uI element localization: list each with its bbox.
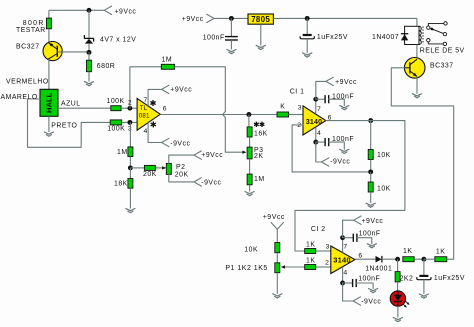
svg-text:+9Vcc: +9Vcc <box>115 9 137 16</box>
resistor R 2K2 <box>395 272 413 283</box>
wire K to CI1 pin3 <box>289 114 304 116</box>
svg-text:3: 3 <box>298 105 302 112</box>
wire cap to ground CI1 pin4 <box>329 142 345 149</box>
resistor R 1M feedback <box>161 57 174 70</box>
transistor Q1 BC327 <box>16 42 62 61</box>
wire CI1 pin4 to -9Vcc <box>316 142 322 162</box>
ground CI2 pin7 cap <box>367 244 376 248</box>
wire 1M to P3 wiper with hop <box>175 67 243 152</box>
svg-text:RELE DE 5V: RELE DE 5V <box>420 48 465 55</box>
relay contacts <box>427 22 448 46</box>
svg-text:CI 1: CI 1 <box>290 88 305 95</box>
op-amp U1 TL081 <box>137 98 160 130</box>
zener diode D 4V7 x 12V <box>84 35 136 44</box>
wire CI1 pin4 node <box>315 127 317 142</box>
wire pin4 to cap <box>316 141 325 143</box>
wire node to 18K <box>129 168 131 179</box>
wire 1uF to ground <box>306 39 308 53</box>
svg-text:2: 2 <box>297 122 301 129</box>
node dot zener/680R/base <box>87 50 92 55</box>
ground CI1 pin4 cap <box>340 149 349 153</box>
node dot 7805 input <box>229 16 234 21</box>
diode D 1N4007 <box>372 34 408 42</box>
ground below HALL <box>44 132 53 136</box>
svg-text:1K: 1K <box>436 249 445 256</box>
capacitor C 1uFx25V bottom <box>417 275 465 282</box>
wire BC327 collector to HALL (VERMELHO) <box>6 59 49 89</box>
capacitor C 100nF CI1 pin4 <box>325 136 354 146</box>
wire CI1 pin7 to +9Vcc <box>316 81 326 99</box>
ground below 10K lower <box>366 203 375 207</box>
power terminal +9Vcc CI2 <box>354 216 384 225</box>
resistor R 20K <box>143 165 157 178</box>
wire output node to 10K <box>370 121 372 150</box>
svg-text:3: 3 <box>326 243 330 250</box>
wire 10K lower to ground <box>370 192 372 203</box>
wire rail to 1uF <box>306 18 308 34</box>
svg-text:+9Vcc: +9Vcc <box>263 214 285 221</box>
power terminal +9Vcc top-left <box>104 6 136 16</box>
pin 2 label CI2 <box>325 260 329 267</box>
pin 7 label <box>144 97 148 104</box>
wire 680R to ground <box>88 72 90 82</box>
capacitor C 100nF CI2 pin4 <box>353 275 381 287</box>
ground below P1 <box>273 294 282 298</box>
svg-text:680R: 680R <box>97 63 115 70</box>
wire P1 to ground <box>276 273 278 294</box>
wire rail to zener D 4V7 <box>88 10 90 38</box>
svg-text:BC337: BC337 <box>430 62 454 69</box>
svg-text:-9Vcc: -9Vcc <box>361 298 381 305</box>
node dot rail/zener top-left <box>87 8 92 13</box>
wire 16K to P3 <box>249 137 251 147</box>
power terminal +9Vcc 7805 <box>182 14 214 23</box>
label CI 2 <box>311 226 326 233</box>
asterisk mark pin7 <box>150 100 155 106</box>
svg-text:20K: 20K <box>143 171 157 178</box>
resistor R 1K second <box>435 249 447 262</box>
wire 800R to Q BC327 emitter <box>48 29 50 43</box>
wire pin2 node up to 1M <box>130 67 161 108</box>
svg-text:1M: 1M <box>254 176 265 183</box>
resistor R 1K after diode <box>403 248 414 262</box>
resistor R 16K <box>247 127 268 137</box>
svg-text:1K: 1K <box>403 248 412 255</box>
svg-text:+9Vcc: +9Vcc <box>362 218 384 225</box>
capacitor C 1uFx25V rail <box>300 34 348 41</box>
svg-text:10K: 10K <box>244 246 258 253</box>
op-amp U3 CI2 3140 <box>331 246 355 274</box>
wire BC327 base <box>57 51 89 53</box>
wire CI2 pin4 to -9Vcc <box>343 283 354 301</box>
ground below 18K <box>126 209 135 213</box>
wire AZUL <box>58 100 111 108</box>
wire pin3 node down to 1M <box>129 122 131 146</box>
wire BC337 emitter to ground <box>416 77 418 94</box>
svg-text:2: 2 <box>128 100 132 107</box>
power terminal -9Vcc P2 <box>194 178 221 187</box>
resistor R 680R <box>87 60 116 71</box>
wire HALL PRETO to ground <box>49 116 78 132</box>
svg-text:P2: P2 <box>176 164 185 171</box>
pin 3 label CI2 <box>326 243 330 250</box>
wire CI2 output <box>355 258 376 260</box>
svg-text:7: 7 <box>144 97 148 104</box>
svg-text:1uFx25V: 1uFx25V <box>434 275 465 282</box>
svg-text:VERMELHO: VERMELHO <box>6 78 49 85</box>
wire output node down 16K <box>248 115 250 127</box>
wire cap to ground CI2 pin4 <box>356 283 373 289</box>
svg-text:6: 6 <box>163 106 167 113</box>
svg-text:2K: 2K <box>254 153 263 160</box>
svg-text:3140: 3140 <box>306 119 322 126</box>
svg-text:1N4001: 1N4001 <box>365 265 392 272</box>
pin 6 label <box>163 106 167 113</box>
wire TL081 output <box>160 114 277 116</box>
svg-text:PRETO: PRETO <box>51 122 77 129</box>
svg-text:20K: 20K <box>175 172 189 179</box>
wire 10K to P1 <box>276 253 278 263</box>
wire rail down to relay <box>416 18 418 26</box>
diode D 1N4001 <box>365 256 392 272</box>
wire AMARELO loop <box>1 94 111 147</box>
svg-text:1uFx25V: 1uFx25V <box>317 34 348 41</box>
svg-text:BC327: BC327 <box>16 44 40 51</box>
label CI 1 <box>290 88 305 95</box>
power terminal +9Vcc P2 <box>194 151 223 159</box>
wire CI1 pin7 node <box>315 99 317 113</box>
wire LED to ground <box>397 306 399 317</box>
svg-text:4: 4 <box>317 130 321 137</box>
pin 2 label <box>128 100 132 107</box>
svg-text:18K: 18K <box>114 181 128 188</box>
op-amp U2 CI1 3140 <box>303 106 326 135</box>
svg-text:+9Vcc: +9Vcc <box>182 16 204 23</box>
svg-text:3140: 3140 <box>333 255 351 264</box>
ground below rail 1uF <box>303 53 312 57</box>
wire 100K to pin3 node <box>122 121 137 123</box>
resistor R 1M chain <box>247 174 264 185</box>
node dot after 1N4001 <box>395 257 400 262</box>
wire 18K to ground <box>129 188 131 208</box>
wiper arrow into P2 <box>162 166 166 169</box>
svg-text:-9Vcc: -9Vcc <box>330 158 350 165</box>
svg-text:2K2: 2K2 <box>400 275 414 282</box>
wire 100K to pin2 node <box>121 107 137 109</box>
resistor R 1K CI2 pin2 <box>305 257 316 269</box>
svg-text:100nF: 100nF <box>359 231 381 238</box>
wire terminal to 10K <box>276 229 278 242</box>
ground below 1M chain <box>245 192 254 196</box>
pin 2 label CI1 <box>297 122 301 129</box>
ground below LED <box>393 318 402 322</box>
capacitor C 100nF input <box>203 35 238 42</box>
node dot CI1 output <box>368 118 373 123</box>
wire pin4 to cap CI2 <box>343 282 353 284</box>
svg-text:4V7 x 12V: 4V7 x 12V <box>100 36 136 43</box>
svg-text:-9Vcc: -9Vcc <box>170 140 190 147</box>
node dot pin3 <box>127 120 132 125</box>
power terminal +9Vcc CI1 <box>326 77 357 86</box>
power terminal -9Vcc CI2 <box>353 297 381 306</box>
wire CI2 pin7 node <box>342 238 344 253</box>
transistor Q2 BC337 <box>404 58 453 79</box>
svg-text:+9Vcc: +9Vcc <box>170 86 192 93</box>
wire 1M to node <box>129 157 131 168</box>
svg-text:AZUL: AZUL <box>61 100 81 107</box>
pin 3 label <box>128 126 132 133</box>
wire 1M chain to ground <box>249 185 251 192</box>
resistor R 1K CI2 pin3 <box>305 242 316 254</box>
node dot CI2 pin4 <box>340 281 345 286</box>
svg-text:P1 1K2 1K5: P1 1K2 1K5 <box>225 265 267 272</box>
pin 6 label CI2 <box>358 253 362 260</box>
svg-text:CI 2: CI 2 <box>311 226 326 233</box>
capacitor C 100nF CI1 pin7 <box>325 93 354 103</box>
wire pin7 to cap <box>316 98 325 100</box>
svg-text:1M: 1M <box>117 149 128 156</box>
wire node to 10K lower <box>370 172 372 182</box>
node dot CI2 pin7 <box>340 235 345 240</box>
svg-text:1K: 1K <box>306 257 315 264</box>
wire rail to 800R <box>48 10 50 18</box>
svg-text:10K: 10K <box>377 186 391 193</box>
svg-text:K: K <box>280 103 285 110</box>
wire CI2 pin4 node <box>342 267 344 283</box>
wire 1K to base riser <box>447 258 454 260</box>
relay K1 coil RELE DE 5V <box>405 26 465 54</box>
svg-text:100K: 100K <box>107 98 125 105</box>
svg-text:+9Vcc: +9Vcc <box>335 79 357 86</box>
svg-text:16K: 16K <box>254 130 268 137</box>
wire P3 to 1M <box>249 159 251 174</box>
node dot pin2 <box>127 106 132 111</box>
resistor R 800R <box>16 18 51 34</box>
wire P2 top to +9Vcc <box>169 155 194 163</box>
wire zener to node <box>88 44 90 53</box>
svg-text:3: 3 <box>128 126 132 133</box>
power terminal +9Vcc P1 chain <box>263 214 285 229</box>
svg-text:TESTAR: TESTAR <box>16 27 46 34</box>
node dot TL081 output <box>246 112 251 117</box>
svg-text:HALL: HALL <box>44 92 53 113</box>
pin 6 label CI1 <box>328 115 332 122</box>
wire 1uF bottom node <box>423 259 425 275</box>
pin 4 label <box>144 128 148 135</box>
svg-text:AMARELO: AMARELO <box>1 94 38 101</box>
wire 20K to P2 wiper <box>155 167 162 169</box>
node dot 10K divider <box>368 169 373 174</box>
wire BC337 base loop <box>391 68 453 259</box>
ground below 7805 <box>256 45 265 49</box>
svg-text:100nF: 100nF <box>358 275 380 282</box>
svg-text:100K: 100K <box>107 126 125 133</box>
wire 1K to CI2 pin3 <box>316 250 331 252</box>
resistor R 100K (pin2) <box>107 98 125 111</box>
pin 4 label CI1 <box>317 130 321 137</box>
wire TL081 pin4 to -9Vcc <box>148 123 162 143</box>
node dot CI1 pin7 <box>313 97 318 102</box>
power terminal -9Vcc CI1 <box>322 158 351 166</box>
power terminal +9Vcc TL081 <box>162 85 193 93</box>
wire node to 680R <box>88 52 90 60</box>
svg-text:100nF: 100nF <box>203 35 225 42</box>
wire 7805 output rail <box>273 17 417 19</box>
potentiometer P1 1K2 1K5 <box>225 263 279 273</box>
resistor R 10K lower <box>368 182 391 193</box>
node dot CI1 pin4 <box>313 140 318 145</box>
resistor R 10K P1 chain <box>244 243 279 254</box>
svg-text:1K: 1K <box>306 242 315 249</box>
wire cap to ground CI1 pin7 <box>329 99 345 105</box>
potentiometer P3 2K <box>247 147 263 160</box>
svg-text:4: 4 <box>144 128 148 135</box>
ground below input cap <box>227 50 236 54</box>
wire +9Vcc rail top-left <box>49 9 104 11</box>
svg-text:7: 7 <box>343 244 347 251</box>
wire TL081 pin7 to +9Vcc <box>148 89 162 105</box>
potentiometer P2 20K <box>166 163 188 178</box>
svg-text:10K: 10K <box>377 152 391 159</box>
asterisk mark pin4 <box>151 121 156 127</box>
resistor R K <box>277 103 289 117</box>
regulator U 7805 <box>248 14 273 24</box>
node dot 5V rail <box>305 16 310 21</box>
resistor R 100K (pin3) <box>107 120 125 133</box>
wire cap to ground <box>230 40 232 49</box>
svg-text:+9Vcc: +9Vcc <box>201 152 223 159</box>
wire pin7 to cap CI2 <box>343 237 354 239</box>
ground CI1 pin7 cap <box>340 106 349 110</box>
capacitor C 100nF CI2 pin7 <box>353 231 380 242</box>
svg-text:4: 4 <box>343 269 347 276</box>
resistor R 1M vertical <box>117 147 133 157</box>
pin 7 label CI1 <box>317 106 321 113</box>
relay dotted link <box>422 27 424 45</box>
svg-text:2: 2 <box>325 260 329 267</box>
resistor R 10K upper <box>368 150 391 160</box>
wire relay to BC337 collector <box>416 45 418 59</box>
wire P1 wiper to 1K <box>284 266 305 268</box>
wire CI1 output loop to CI2 <box>295 121 405 251</box>
wire 10K to node <box>370 160 372 172</box>
wire 1uF bottom to ground <box>423 280 425 294</box>
pin 3 label CI1 <box>298 105 302 112</box>
wire diode to node <box>382 258 398 260</box>
wire input cap <box>230 18 232 36</box>
svg-text:-9Vcc: -9Vcc <box>201 179 221 186</box>
pin 4 label CI2 <box>343 269 347 276</box>
ground CI2 pin4 cap <box>369 289 378 293</box>
ground below 680R <box>84 82 93 86</box>
node dot 1M/18K/20K <box>128 165 133 170</box>
wire CI1 pin2 feedback <box>292 125 371 172</box>
wire 7805 ground pin <box>260 24 262 45</box>
svg-text:1M: 1M <box>162 57 173 64</box>
wire 2K2 to LED <box>397 282 399 291</box>
wire CI2 pin7 to +9Vcc <box>343 220 354 238</box>
wire cap to ground CI2 pin7 <box>357 238 372 244</box>
pin 7 label CI2 <box>343 244 347 251</box>
wiper arrow into P3 <box>242 151 246 154</box>
HALL sensor <box>40 89 58 116</box>
svg-text:TL: TL <box>140 105 148 112</box>
resistor R 18K <box>114 179 133 189</box>
svg-text:081: 081 <box>139 112 150 119</box>
ground BC337 emitter <box>412 94 421 98</box>
wire P2 bottom to -9Vcc <box>169 174 194 182</box>
svg-text:7805: 7805 <box>251 15 270 24</box>
wire 1K to node <box>414 258 424 260</box>
node dot 1uF bottom <box>421 257 426 262</box>
wire terminal to 7805 <box>214 17 248 19</box>
wire 1K to CI2 pin2 <box>316 266 331 268</box>
asterisk mark 16K <box>254 122 264 127</box>
power terminal -9Vcc TL081 <box>162 138 191 147</box>
wire node to 2K2 <box>397 259 399 271</box>
svg-text:7: 7 <box>317 106 321 113</box>
svg-text:1N4007: 1N4007 <box>372 34 399 41</box>
wiper arrow into P1 <box>281 265 285 268</box>
LED D red <box>390 291 409 308</box>
ground below bottom 1uF <box>419 294 428 298</box>
wire between 1K resistors <box>424 258 435 260</box>
wire node to 20K <box>130 167 144 169</box>
